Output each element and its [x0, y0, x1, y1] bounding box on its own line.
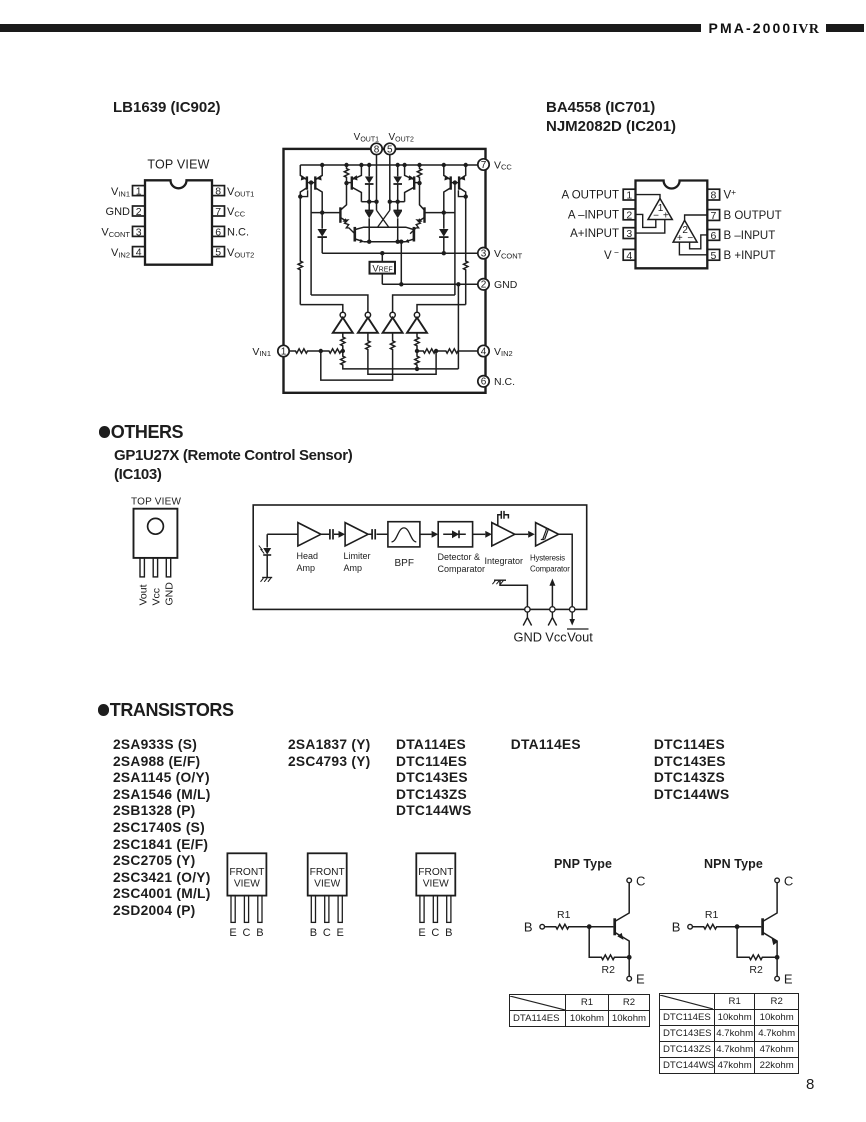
wire emitter to E: [628, 956, 630, 976]
svg-text:N.C.: N.C.: [227, 227, 249, 239]
svg-text:6: 6: [481, 377, 487, 388]
IC701 pin 1: [623, 189, 635, 200]
pin 5: [212, 247, 225, 257]
svg-text:5: 5: [387, 144, 393, 155]
wire crossover VOUT1 to right output: [377, 210, 389, 227]
svg-text:E: E: [229, 927, 236, 939]
resistor R2 (NPN): [737, 927, 777, 976]
transistor pair Q-left (PNP mirror): [300, 165, 322, 213]
IC103 leg Vout: [140, 558, 144, 577]
package 1 leg C: [244, 896, 248, 923]
pin 2 circle GND: [478, 279, 518, 292]
wire crossover VOUT2 to left output: [378, 210, 390, 227]
svg-text:C: C: [243, 927, 251, 939]
BPF block: [388, 522, 420, 569]
svg-text:2: 2: [481, 280, 487, 291]
wire inverter3 feed: [393, 295, 455, 312]
header left bar: [0, 24, 701, 32]
svg-text:VIN2: VIN2: [111, 247, 130, 259]
transistor Q1 PNP: [615, 883, 630, 956]
block diagram outer box: [253, 505, 587, 609]
svg-text:Hysteresis: Hysteresis: [530, 554, 565, 563]
svg-text:7: 7: [481, 160, 487, 171]
svg-text:VCC: VCC: [227, 206, 246, 219]
detector block U-det: [438, 522, 486, 574]
svg-text:E: E: [337, 927, 344, 939]
resistor column right outer: [464, 197, 468, 305]
wire VIN2 rail: [417, 349, 478, 353]
wire VOUT2 bus: [390, 201, 405, 203]
wire integrator to hysteresis with arrow: [515, 531, 535, 538]
node left resistor bottom: [344, 181, 348, 185]
IC701 pin 4: [623, 249, 635, 260]
svg-text:1: 1: [626, 190, 632, 202]
wire pin5 column: [389, 154, 391, 210]
transistor Qout right: [378, 227, 414, 243]
transistor Qm1 right: [405, 165, 420, 202]
svg-text:4: 4: [481, 346, 487, 357]
diode column VOUT2 side lower: [393, 202, 402, 242]
svg-text:R2: R2: [602, 964, 616, 976]
svg-text:VIN1: VIN1: [111, 186, 130, 199]
wire emitter bus to GND rail: [400, 242, 402, 285]
svg-text:Head: Head: [297, 551, 319, 561]
svg-text:8: 8: [710, 190, 716, 202]
wire GND rail: [382, 283, 478, 285]
package 2 leg E: [338, 896, 342, 923]
svg-text:E: E: [418, 927, 425, 939]
op-amp B (2): [673, 220, 697, 242]
node right pair collector: [464, 194, 468, 198]
inverter A3: [383, 312, 403, 333]
header right bar: [826, 24, 864, 32]
wire inverter4 feed: [417, 305, 466, 313]
svg-text:Integrator: Integrator: [485, 556, 524, 566]
transistor pair Q-right (PNP mirror): [444, 165, 466, 213]
wire pin7 to op-amp B output: [685, 215, 708, 220]
IC902 internal schematic outer box: [284, 149, 486, 393]
node left pair collector: [298, 194, 302, 198]
pin 1: [133, 186, 146, 196]
wire pin8 column: [376, 154, 378, 210]
wire VCONT rail: [322, 252, 478, 254]
IC103 leg GND: [166, 558, 170, 577]
terminal E (PNP): [627, 976, 632, 981]
node right resistor bottom: [417, 181, 421, 185]
svg-text:6: 6: [710, 230, 716, 242]
GND terminal fork: [523, 612, 531, 625]
package outline 2: [308, 853, 347, 895]
VCC rail: [300, 164, 478, 166]
transistor Qm2 left driver: [311, 183, 355, 234]
photodiode input wire: [267, 534, 298, 547]
svg-text:R2: R2: [749, 964, 763, 976]
pin 8 circle: [371, 143, 382, 155]
svg-text:VIN2: VIN2: [494, 346, 513, 358]
node emitter (NPN): [775, 955, 780, 960]
svg-text:Amp: Amp: [297, 563, 316, 573]
resistor column left outer: [298, 197, 302, 305]
package 1 leg E: [231, 896, 235, 923]
wire pin1 to op-amp A output: [636, 195, 661, 199]
svg-text:VREF: VREF: [372, 263, 392, 274]
IC701 pin 6: [707, 230, 719, 241]
integrator feedback capacitor: [498, 511, 509, 526]
svg-text:Amp: Amp: [344, 563, 363, 573]
svg-text:V+: V+: [724, 187, 737, 202]
VREF block U-ref: [370, 262, 396, 274]
svg-text:TOP VIEW: TOP VIEW: [131, 496, 181, 507]
svg-text:N.C.: N.C.: [494, 376, 515, 388]
node emitter (PNP): [627, 955, 632, 960]
svg-text:VIEW: VIEW: [234, 879, 260, 890]
IC701 pin 3: [623, 228, 635, 239]
svg-text:3: 3: [481, 249, 487, 260]
resistor bias1 lower: [341, 351, 459, 369]
svg-text:VOUT1: VOUT1: [354, 132, 379, 143]
svg-text:BPF: BPF: [395, 558, 414, 569]
wire base to Q1: [589, 926, 613, 928]
diode column VOUT1 side lower: [365, 202, 374, 242]
svg-text:Detector &: Detector &: [438, 552, 481, 562]
resistor R1 (PNP): [545, 909, 590, 929]
terminal E (NPN): [775, 976, 780, 981]
wire BPF to detector with arrow: [420, 531, 438, 538]
svg-text:VCC: VCC: [494, 159, 512, 171]
terminal Vcc: [550, 607, 555, 612]
svg-text:3: 3: [626, 228, 632, 240]
svg-text:VOUT2: VOUT2: [227, 247, 254, 259]
wire VOUT1 bus: [361, 201, 376, 203]
svg-text:VOUT2: VOUT2: [389, 132, 414, 143]
wire base to Q2: [737, 926, 761, 928]
package 3 leg B: [447, 896, 451, 923]
diode column VOUT1 side upper: [365, 165, 374, 202]
svg-text:7: 7: [710, 210, 716, 222]
package 2 leg C: [325, 896, 329, 923]
wire inverter2 feed: [311, 295, 368, 312]
svg-text:5: 5: [215, 247, 221, 259]
IC701 pin 2: [623, 209, 635, 220]
wire pin6 to op-amp B inverting input: [690, 235, 708, 249]
svg-text:C: C: [323, 927, 331, 939]
resistor R2 (PNP): [589, 927, 629, 976]
svg-text:C: C: [784, 874, 793, 889]
svg-text:2: 2: [626, 210, 632, 222]
package 2 leg B: [311, 896, 315, 923]
svg-text:−: −: [687, 233, 693, 244]
capacitor C2: [368, 529, 388, 539]
pin 7 circle Vcc: [478, 159, 513, 172]
pin 4: [133, 247, 146, 257]
pin 3: [133, 226, 146, 236]
svg-text:Limiter: Limiter: [344, 551, 371, 561]
svg-text:FRONT: FRONT: [310, 867, 345, 878]
pin 6 circle N.C.: [478, 376, 515, 389]
IC103 leg Vcc: [153, 558, 157, 577]
svg-text:B: B: [672, 920, 681, 935]
svg-text:V −: V −: [604, 247, 619, 262]
svg-text:6: 6: [215, 226, 221, 238]
svg-text:1: 1: [136, 186, 142, 198]
resistor inverter2 out: [366, 333, 436, 374]
wire detector to integrator with arrow: [473, 531, 492, 538]
resistor bias4 lower: [415, 351, 419, 369]
svg-text:1: 1: [281, 346, 287, 357]
resistor inverter3 out: [321, 333, 395, 380]
svg-text:B: B: [524, 920, 533, 935]
wire output to Vout terminal: [559, 534, 573, 606]
svg-text:C: C: [636, 874, 645, 889]
pin 7: [212, 206, 225, 216]
svg-text:A –INPUT: A –INPUT: [568, 209, 619, 221]
package 3 leg C: [433, 896, 437, 923]
terminal GND: [525, 607, 530, 612]
terminal B (NPN): [688, 924, 693, 929]
svg-text:2: 2: [136, 206, 142, 218]
diode column VOUT2 side upper: [393, 165, 402, 202]
inverter A1: [333, 312, 353, 333]
IC902 package body: [145, 180, 212, 264]
svg-text:E: E: [636, 972, 645, 987]
svg-text:7: 7: [215, 206, 221, 218]
header logo PMA-2000IVR: [702, 20, 826, 38]
svg-text:B: B: [445, 927, 452, 939]
terminal C (PNP): [627, 878, 632, 883]
resistor inverter1 out: [341, 333, 345, 351]
amp U-integrator triangle: [485, 523, 524, 566]
inverter A2: [358, 312, 378, 333]
svg-text:VIEW: VIEW: [314, 879, 340, 890]
package outline 1: [227, 853, 266, 895]
svg-text:TOP VIEW: TOP VIEW: [147, 158, 209, 172]
photodiode D1: [259, 546, 271, 578]
wire inverter1 feed: [300, 305, 343, 313]
svg-text:B: B: [256, 927, 263, 939]
node left pair base: [309, 180, 313, 184]
transistor Qm2 right driver: [410, 183, 455, 234]
pin 6: [212, 226, 225, 236]
svg-text:GND: GND: [494, 279, 518, 291]
IC701 pin 5: [707, 249, 719, 260]
package 1 leg B: [258, 896, 262, 923]
svg-text:Comparator: Comparator: [530, 565, 570, 574]
svg-text:8: 8: [215, 186, 221, 198]
transistor Qm1 left: [347, 165, 362, 202]
svg-text:Vout: Vout: [567, 630, 593, 645]
pin 3 circle VCONT: [478, 248, 523, 261]
svg-text:Vcc: Vcc: [545, 630, 567, 645]
node base (NPN): [735, 924, 740, 929]
svg-text:3: 3: [136, 226, 142, 238]
svg-text:GND: GND: [106, 206, 131, 218]
svg-text:Comparator: Comparator: [438, 564, 486, 574]
IC701 pin 7: [707, 210, 719, 221]
package 3 leg E: [420, 896, 424, 923]
svg-text:A+INPUT: A+INPUT: [570, 228, 619, 240]
wire pin5 to op-amp B non-inverting input: [679, 242, 707, 255]
Vcc internal arrow: [549, 579, 555, 607]
svg-text:Vout: Vout: [137, 584, 149, 605]
IC701 pin 8: [707, 189, 719, 200]
amp U-hysteresis comparator triangle: [530, 523, 570, 574]
svg-text:4: 4: [136, 247, 142, 259]
svg-text:R1: R1: [557, 909, 571, 921]
svg-text:B: B: [310, 927, 317, 939]
wire inverter3 feed column: [454, 183, 456, 295]
amp U-limiter triangle: [345, 523, 368, 546]
IC103 lens circle: [148, 518, 164, 534]
svg-text:GND: GND: [514, 630, 542, 645]
pin 1 circle VIN1: [252, 345, 289, 358]
wire pin2 to op-amp A inverting input: [636, 214, 656, 227]
ground internal: [492, 580, 527, 606]
Vcc terminal fork: [548, 612, 556, 625]
svg-text:VIEW: VIEW: [423, 879, 449, 890]
amp U-head triangle: [298, 523, 321, 546]
svg-text:FRONT: FRONT: [229, 867, 264, 878]
resistor R-right upper: [417, 165, 421, 183]
wire VREF to GND rail: [381, 274, 383, 285]
svg-text:VIN1: VIN1: [252, 346, 271, 358]
IC701 package body: [636, 181, 708, 269]
svg-text:R1: R1: [705, 909, 719, 921]
pin 5 circle: [384, 143, 395, 155]
svg-text:Vcc: Vcc: [151, 588, 163, 606]
transistor Qout left: [355, 227, 389, 243]
wire VREF drop: [381, 253, 383, 262]
IC103 package body: [134, 509, 178, 558]
wire pin3 to op-amp A non-inverting input: [636, 220, 665, 234]
svg-text:B –INPUT: B –INPUT: [724, 230, 776, 242]
wire GND to bottom resistor bus: [457, 284, 459, 369]
svg-text:E: E: [784, 972, 793, 987]
pin 8: [212, 186, 225, 196]
resistor R1 (NPN): [692, 909, 737, 929]
terminal C (NPN): [775, 878, 780, 883]
svg-text:VOUT1: VOUT1: [227, 186, 254, 199]
wire emitter to E: [776, 956, 778, 976]
svg-text:+: +: [663, 210, 669, 221]
op-amp A (1): [648, 199, 672, 220]
diode clamp left: [318, 213, 327, 254]
svg-text:VCONT: VCONT: [494, 248, 523, 260]
svg-text:B OUTPUT: B OUTPUT: [724, 210, 782, 222]
svg-text:GND: GND: [164, 582, 176, 606]
svg-text:A OUTPUT: A OUTPUT: [561, 190, 619, 202]
svg-text:VCONT: VCONT: [101, 227, 130, 240]
terminal B (PNP): [540, 924, 545, 929]
svg-text:4: 4: [626, 250, 632, 262]
svg-text:C: C: [431, 927, 439, 939]
transistor Q2 NPN: [763, 883, 778, 956]
svg-text:8: 8: [374, 144, 380, 155]
resistor R-left upper: [344, 165, 348, 183]
pin 2: [133, 206, 146, 216]
node right pair base: [453, 180, 457, 184]
ground photodiode: [261, 578, 273, 582]
node base (PNP): [587, 924, 592, 929]
svg-text:FRONT: FRONT: [418, 867, 453, 878]
capacitor C1: [321, 529, 345, 539]
wire inverter2 feed column: [310, 183, 312, 295]
diode clamp right: [439, 213, 448, 254]
inverter A4: [407, 312, 427, 333]
emitter bus: [364, 241, 406, 243]
pin 4 circle VIN2: [478, 345, 513, 358]
svg-text:5: 5: [710, 250, 716, 262]
Vout terminal arrow: [569, 612, 575, 625]
svg-text:B +INPUT: B +INPUT: [724, 250, 776, 262]
page number: [806, 1076, 814, 1093]
PNP / NPN headings: [554, 857, 612, 871]
package outline 3: [416, 853, 455, 895]
wire VIN1 rail: [289, 349, 343, 353]
resistor inverter4 out: [415, 333, 419, 351]
terminal Vout: [570, 607, 575, 612]
